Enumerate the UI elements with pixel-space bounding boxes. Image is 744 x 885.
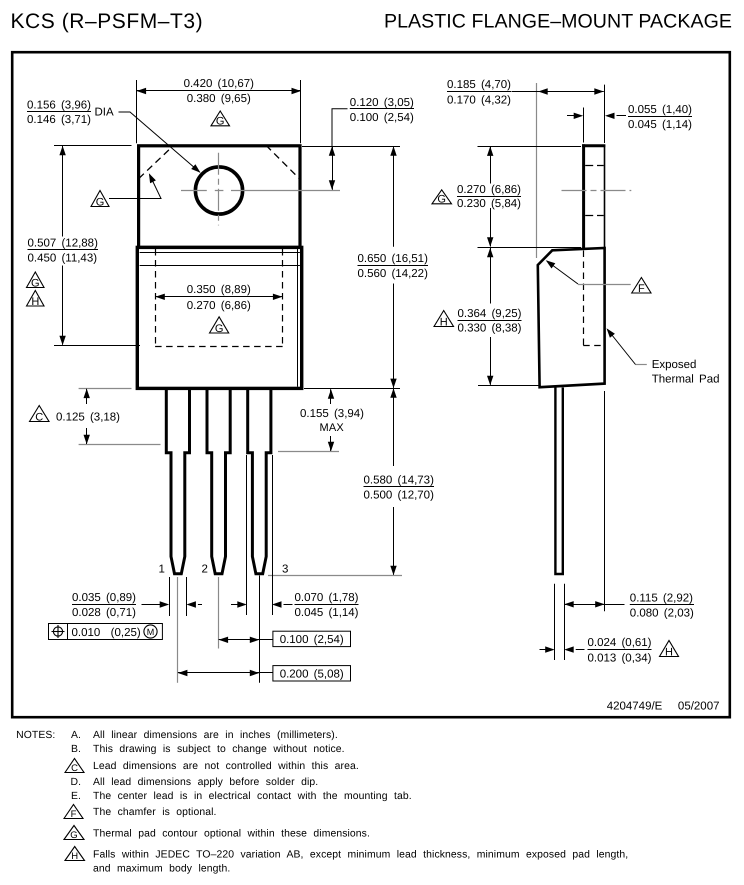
tab top extension line right: [302, 146, 400, 148]
flag H left: [27, 291, 45, 308]
svg-text:0.115 (2,92): 0.115 (2,92): [630, 592, 693, 604]
svg-text:4204749/E 05/2007: 4204749/E 05/2007: [607, 700, 720, 712]
DIA leader arrowhead: [191, 164, 200, 173]
svg-text:and maximum body length.: and maximum body length.: [93, 864, 230, 875]
svg-text:G: G: [216, 116, 225, 128]
lead step extension line right: [278, 451, 339, 453]
dim 0.024 arrow line left: [540, 649, 552, 651]
dim 0.055 arrowhead right: [605, 113, 615, 119]
svg-text:All linear dimensions are in i: All linear dimensions are in inches (mil…: [93, 730, 338, 741]
svg-text:0.125 (3,18): 0.125 (3,18): [56, 411, 120, 423]
svg-text:G: G: [437, 194, 446, 206]
dim 0.185 dimension line: [512, 91, 604, 93]
svg-text:PLASTIC FLANGE–MOUNT PACKAGE: PLASTIC FLANGE–MOUNT PACKAGE: [384, 11, 732, 33]
dim 0.125 arrow up: [84, 389, 90, 399]
svg-text:Thermal Pad: Thermal Pad: [652, 373, 720, 385]
dim 0.580 line upper segment: [393, 388, 395, 466]
dim 0.270 line upper segment: [490, 146, 492, 183]
svg-text:0.420 (10,67): 0.420 (10,67): [184, 78, 255, 90]
exposed pad leader diagonal: [608, 330, 636, 365]
dim 0.156 fraction bar: [27, 111, 91, 113]
chamfer leader gray line: [578, 284, 631, 286]
svg-text:0.035 (0,89): 0.035 (0,89): [72, 592, 136, 604]
svg-text:0.560 (14,22): 0.560 (14,22): [358, 268, 429, 280]
dim 0.100 pitch line: [219, 639, 273, 641]
side lead: [555, 388, 562, 575]
dim 0.055 arrow line right: [617, 115, 627, 117]
note G triangle: [64, 826, 84, 841]
dim 0.507/0.450 extension line top: [54, 145, 132, 147]
side hole hidden edge lower: [585, 215, 604, 217]
flag G leader to chamfer: [91, 191, 109, 209]
lead 3: [248, 389, 271, 574]
dim 0.035 fraction bar: [72, 604, 136, 606]
svg-text:0.200 (5,08): 0.200 (5,08): [280, 669, 344, 681]
lead 2: [207, 389, 230, 574]
side tab left face: [582, 144, 585, 248]
note H triangle: [65, 847, 85, 862]
side tab bottom extension line left: [478, 247, 582, 249]
front tab body outline: [139, 146, 300, 248]
svg-text:0.070 (1,78): 0.070 (1,78): [295, 592, 359, 604]
dim 0.055 arrowhead left: [574, 113, 584, 119]
dim 0.507/0.450 extension line bottom: [54, 345, 140, 347]
dim 0.070 arrowhead left: [237, 601, 247, 607]
dim 0.200 pitch line: [178, 672, 273, 674]
dim 0.507 arrow up: [59, 146, 65, 156]
side lead left extension line down: [554, 584, 556, 660]
dim 0.580 arrow down: [390, 566, 396, 576]
front molded body outline: [137, 247, 301, 388]
chamfer dashed line right: [266, 145, 301, 180]
svg-text:0.580 (14,73): 0.580 (14,73): [364, 474, 435, 486]
lead tip extension line: [268, 575, 402, 577]
dim 0.115 dimension line: [564, 604, 624, 606]
svg-text:1: 1: [159, 564, 165, 576]
lead1 width extension left: [169, 577, 171, 616]
svg-text:B.: B.: [71, 744, 81, 755]
front body inner thin horizontal line: [140, 265, 300, 267]
svg-text:0.045 (1,14): 0.045 (1,14): [295, 607, 359, 619]
dim 0.035 arrowhead left: [160, 601, 170, 607]
dim 0.024 fraction bar: [588, 649, 652, 651]
dim 0.650 line upper segment: [393, 146, 395, 247]
svg-text:0.270 (6,86): 0.270 (6,86): [457, 184, 521, 196]
svg-text:0.450 (11,43): 0.450 (11,43): [28, 253, 98, 265]
feature control frame box: [49, 624, 163, 640]
dim 0.580 fraction bar: [364, 486, 435, 488]
dim 0.270 arrow down: [487, 237, 493, 247]
lead3 center extension line: [259, 576, 261, 683]
svg-text:0.100 (2,54): 0.100 (2,54): [350, 112, 414, 124]
dim 0.420 arrow left: [137, 88, 147, 94]
dim 0.070 fraction bar: [295, 604, 359, 606]
dim 0.350 arrow left: [155, 294, 165, 300]
svg-text:Lead dimensions are not contro: Lead dimensions are not controlled withi…: [93, 761, 359, 772]
dim 0.270 fraction bar: [457, 196, 521, 198]
border frame: [12, 52, 730, 717]
flag G side: [432, 190, 452, 206]
dim 0.185 arrowhead right: [594, 88, 604, 94]
svg-text:The center lead is in electric: The center lead is in electrical contact…: [93, 791, 412, 802]
svg-text:0.013 (0,34): 0.013 (0,34): [588, 652, 652, 664]
dim 0.100 arrow left: [219, 637, 229, 643]
dim 0.120/0.100 leader: [332, 109, 348, 146]
dim 0.024 arrow line right: [576, 649, 585, 651]
tab back extension line: [604, 85, 606, 143]
chamfer dashed line left: [139, 146, 174, 179]
svg-text:0.650 (16,51): 0.650 (16,51): [358, 253, 429, 265]
svg-text:H: H: [665, 646, 673, 658]
svg-text:0.055 (1,40): 0.055 (1,40): [628, 104, 692, 116]
svg-text:0.120 (3,05): 0.120 (3,05): [350, 97, 414, 109]
dim 0.185 arrowhead left: [538, 88, 548, 94]
dim 0.070 arrow line right: [284, 604, 293, 606]
chamfer leader arrowhead: [149, 173, 156, 183]
svg-text:G: G: [31, 277, 40, 289]
thermal pad dashed contour front bottom: [155, 346, 283, 348]
lead3 width extension left: [246, 455, 248, 615]
svg-text:Falls within JEDEC TO–220 vari: Falls within JEDEC TO–220 variation AB, …: [93, 850, 628, 861]
dim 0.420 arrow right: [292, 88, 302, 94]
lead 1: [166, 389, 189, 574]
svg-text:0.380 (9,65): 0.380 (9,65): [187, 93, 251, 105]
flag G left: [27, 272, 45, 289]
svg-text:The chamfer is optional.: The chamfer is optional.: [93, 807, 217, 818]
dim 0.350 arrow right: [273, 294, 283, 300]
svg-text:0.330 (8,38): 0.330 (8,38): [458, 322, 522, 334]
dim 0.035 arrow line left: [142, 604, 167, 606]
side body bottom extension left: [478, 385, 540, 387]
dim 0.350/0.270 dimension line: [155, 296, 282, 298]
svg-text:G: G: [96, 196, 105, 208]
lead3 width extension right: [272, 455, 274, 615]
M circle symbol: [144, 625, 157, 638]
svg-text:0.185 (4,70): 0.185 (4,70): [447, 79, 511, 91]
dim 0.115 fraction bar: [630, 604, 694, 606]
dim 0.650 line lower segment: [393, 284, 395, 388]
dim 0.200 arrow right: [250, 670, 260, 676]
dim 0.155 arrow down: [328, 442, 334, 452]
dim 0.507 line upper segment: [62, 146, 64, 237]
svg-text:NOTES:: NOTES:: [16, 730, 55, 741]
dim 0.650 fraction bar: [358, 265, 429, 267]
tab front extension line: [583, 108, 585, 143]
dim 0.120 arrow down: [329, 180, 335, 190]
mounting hole: [195, 167, 242, 214]
svg-text:3: 3: [282, 564, 288, 576]
dim 0.580 line lower segment: [393, 507, 395, 575]
dim 0.650 arrow up: [390, 146, 396, 156]
svg-text:0.350 (8,89): 0.350 (8,89): [187, 284, 251, 296]
dim 0.055 arrow line left: [567, 115, 579, 117]
dim 0.035 arrow line right: [198, 604, 202, 606]
dim 0.185 fraction bar: [447, 91, 511, 93]
side thermal pad hidden edge vertical: [583, 251, 585, 346]
hole vertical centerline: [218, 153, 220, 226]
side tab top edge: [582, 144, 605, 147]
svg-text:H: H: [71, 851, 78, 862]
thermal pad dashed contour front left side: [155, 249, 157, 346]
svg-text:C: C: [35, 411, 43, 423]
svg-text:0.155 (3,94): 0.155 (3,94): [300, 408, 364, 420]
side hole centerline: [562, 190, 632, 192]
dim 0.420/0.380 extension line left: [136, 80, 138, 143]
dim 0.507 line lower segment: [62, 266, 64, 345]
side back face extension line down: [604, 391, 606, 611]
note F triangle: [64, 805, 83, 820]
flag C left: [30, 406, 50, 424]
dim 0.507 arrow down: [59, 336, 65, 346]
dim 0.270 line lower segment: [490, 208, 492, 247]
dim 0.420/0.380 extension line right: [300, 80, 302, 143]
front body inner thin horizontal line upper: [140, 252, 300, 254]
svg-text:0.230 (5,84): 0.230 (5,84): [457, 198, 521, 210]
side hole hidden edge upper: [585, 165, 604, 167]
svg-text:0.507 (12,88): 0.507 (12,88): [28, 237, 99, 249]
dim 0.125 line lower segment: [86, 428, 88, 444]
dim 0.200 box: [273, 666, 351, 681]
dim 0.125 line upper segment: [86, 389, 88, 404]
side tab right face: [604, 145, 606, 249]
svg-text:0.500 (12,70): 0.500 (12,70): [364, 489, 435, 501]
exposed pad arrowhead: [607, 328, 615, 337]
dim 0.115 arrowhead left: [564, 601, 574, 607]
svg-text:H: H: [31, 296, 39, 308]
body bottom extension line right: [304, 388, 400, 390]
flag G inside pad: [210, 317, 229, 335]
svg-text:D.: D.: [71, 777, 82, 788]
DIA leader line: [119, 112, 200, 172]
svg-text:2: 2: [202, 564, 208, 576]
chamfer leader diagonal: [547, 261, 578, 284]
dim 0.070 arrow line left: [231, 604, 244, 606]
svg-text:0.010 (0,25): 0.010 (0,25): [72, 627, 141, 639]
svg-text:0.045 (1,14): 0.045 (1,14): [628, 119, 692, 131]
dim 0.155 line upper segment: [330, 389, 332, 404]
svg-text:0.364 (9,25): 0.364 (9,25): [458, 308, 522, 320]
flag H side: [434, 311, 454, 329]
note C triangle: [65, 759, 84, 774]
svg-text:Exposed: Exposed: [652, 359, 697, 371]
thermal pad dashed contour front right side: [282, 249, 284, 346]
flag G below 0.420: [211, 111, 230, 128]
dim 0.270 arrow up: [487, 146, 493, 156]
side tab top extension line left: [478, 146, 582, 148]
svg-text:Thermal pad contour optional w: Thermal pad contour optional within thes…: [93, 828, 370, 839]
svg-text:F: F: [638, 283, 645, 295]
svg-text:A.: A.: [71, 730, 81, 741]
dim 0.024 arrowhead left: [545, 646, 555, 652]
svg-text:DIA: DIA: [95, 107, 115, 119]
lead1 width extension right: [186, 577, 188, 616]
dim 0.120 arrow up: [329, 146, 335, 156]
flag F side: [632, 278, 651, 295]
lead2 center extension line: [218, 577, 220, 649]
position tolerance symbol: [52, 625, 65, 638]
svg-text:0.024 (0,61): 0.024 (0,61): [588, 637, 652, 649]
dim 0.155 line lower segment: [330, 436, 332, 451]
svg-text:M: M: [147, 627, 155, 637]
dim 0.125 arrow down: [84, 435, 90, 445]
dim 0.100 box: [273, 631, 351, 646]
svg-text:0.156 (3,96): 0.156 (3,96): [27, 99, 91, 111]
svg-text:H: H: [440, 316, 448, 328]
side lead right extension line down: [564, 584, 566, 660]
svg-text:G: G: [215, 323, 224, 335]
svg-text:All lead dimensions apply befo: All lead dimensions apply before solder …: [93, 777, 318, 788]
svg-text:0.170 (4,32): 0.170 (4,32): [447, 94, 511, 106]
dim 0.364 fraction bar: [458, 320, 522, 322]
feature control frame divider: [67, 624, 69, 640]
dim 0.200 arrow left: [178, 670, 188, 676]
dim 0.024 arrowhead right: [564, 646, 574, 652]
dim 0.507 fraction bar: [28, 249, 99, 251]
svg-text:0.100 (2,54): 0.100 (2,54): [280, 634, 344, 646]
dim 0.120 fraction bar: [350, 108, 414, 110]
dim 0.364 line upper segment: [490, 248, 492, 304]
side body outline: [538, 248, 605, 387]
svg-text:KCS (R–PSFM–T3): KCS (R–PSFM–T3): [11, 10, 204, 33]
front body inner thin vertical line: [297, 249, 299, 387]
dim 0.420/0.380 dimension line: [137, 90, 301, 92]
svg-text:E.: E.: [71, 791, 81, 802]
dim 0.070 arrowhead right: [272, 601, 282, 607]
chamfer leader arrowhead: [546, 260, 556, 268]
dim 0.035 arrowhead right: [186, 601, 196, 607]
dim 0.115 arrowhead right: [595, 601, 605, 607]
svg-text:0.028 (0,71): 0.028 (0,71): [72, 607, 136, 619]
exposed pad leader gray line: [636, 364, 647, 366]
lead step extension line left: [79, 444, 161, 446]
dim 0.580 arrow up: [390, 388, 396, 398]
dim 0.100 arrow right: [250, 637, 260, 643]
dim 0.055 fraction bar: [628, 116, 692, 118]
svg-text:G: G: [70, 830, 77, 841]
flag H bottom: [660, 641, 679, 659]
lead1 center extension line: [177, 577, 179, 683]
svg-text:0.080 (2,03): 0.080 (2,03): [630, 608, 694, 620]
dim 0.364 arrow down: [487, 376, 493, 386]
chamfer leader line: [109, 175, 161, 199]
svg-text:MAX: MAX: [320, 422, 345, 434]
svg-text:This drawing is subject to cha: This drawing is subject to change withou…: [93, 744, 345, 755]
svg-text:0.270 (6,86): 0.270 (6,86): [187, 300, 251, 312]
front face projection line gray: [536, 83, 538, 258]
dim 0.364 line lower segment: [490, 337, 492, 385]
hole horizontal centerline: [181, 190, 340, 192]
body bottom extension line left: [79, 388, 132, 390]
svg-text:C: C: [71, 763, 78, 774]
dim 0.155 arrow up: [328, 389, 334, 399]
dim 0.120 arrow line: [332, 146, 334, 190]
side thermal pad hidden edge bottom: [583, 345, 603, 347]
svg-text:F: F: [71, 809, 77, 820]
dim 0.650 arrow down: [390, 379, 396, 389]
dim 0.364 arrow up: [487, 248, 493, 257]
svg-text:0.146 (3,71): 0.146 (3,71): [27, 114, 91, 126]
